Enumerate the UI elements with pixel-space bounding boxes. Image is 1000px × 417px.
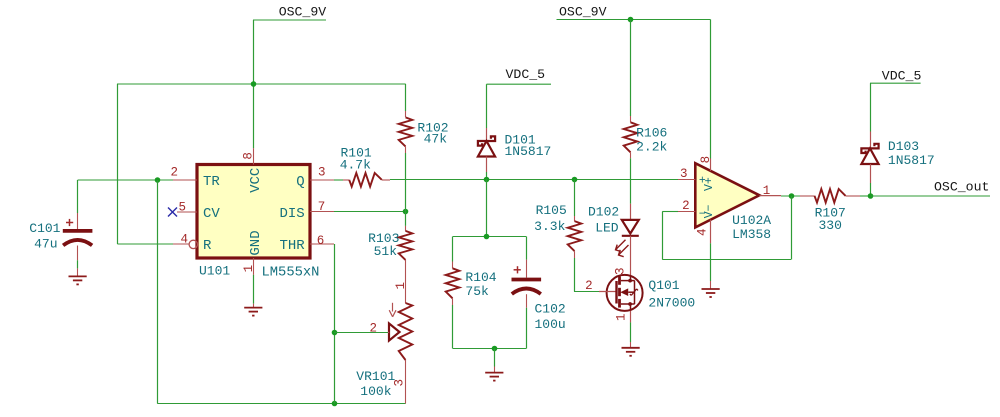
label U101 [199,264,230,279]
pin 3 VR101 [392,379,406,387]
svg-text:7: 7 [318,200,326,214]
junction OSC_9V rail [628,17,634,23]
ground RC [485,373,503,381]
svg-text:C101: C101 [29,221,60,236]
pin name THR [279,238,305,254]
label 1N5817 [505,144,552,159]
svg-text:VDC_5: VDC_5 [882,68,922,83]
svg-text:51k: 51k [374,244,398,259]
pin 7 DIS stub [310,200,334,214]
wire wiper [334,332,388,334]
pin 3 U102A stub [678,167,695,181]
svg-text:OSC_9V: OSC_9V [559,4,607,19]
junction bottom rail / VR101 pin3 [332,401,338,407]
pin 2 VR101 [370,321,378,335]
resistor R107 [800,189,870,203]
svg-text:2N7000: 2N7000 [648,296,695,311]
svg-text:2: 2 [171,166,179,180]
svg-text:100k: 100k [360,384,391,399]
svg-text:U102A: U102A [732,213,771,228]
resistor R105 [568,180,599,292]
svg-text:D103: D103 [888,139,919,154]
ground Q101 [622,348,640,356]
svg-text:8: 8 [699,156,713,164]
label 4.7k [340,157,371,172]
svg-text:1: 1 [394,282,408,290]
svg-text:100u: 100u [535,317,566,332]
svg-text:CV: CV [203,206,220,222]
pin name R [203,238,212,254]
svg-text:V+: V+ [703,177,716,191]
pin 2 TR stub [171,166,197,180]
wire RC top [453,236,527,238]
junction RC top [484,234,490,240]
label R102 [417,120,448,135]
diode D103 1N5817 [861,132,878,197]
svg-text:1N5817: 1N5817 [888,153,935,168]
junction RC ground [492,346,498,352]
svg-text:5: 5 [179,201,187,215]
led D102 [622,204,639,277]
svg-text:OSC_out: OSC_out [934,179,989,194]
label LM358 [732,227,771,242]
label R106 [636,126,667,141]
svg-text:8: 8 [241,152,255,160]
wire C101 top [77,180,79,213]
svg-text:D102: D102 [588,204,619,219]
label R104 [465,270,496,285]
svg-text:6: 6 [317,234,325,248]
svg-text:1: 1 [242,265,256,273]
wire THR vertical [334,244,336,404]
svg-text:47k: 47k [424,132,448,147]
svg-text:R104: R104 [465,270,496,285]
pin 2 Q101 [585,279,593,293]
resistor R102 [399,84,413,212]
wire Q101 source [630,311,632,347]
junction output node [789,193,795,199]
wire feedback loop [662,196,791,260]
label LED [595,220,619,235]
wire output to junction [781,195,800,197]
label 330 [819,218,842,233]
pin 4 R stub [173,233,198,249]
wire left rail down to R pin [117,84,173,244]
svg-text:3: 3 [614,267,628,275]
svg-text:DIS: DIS [279,206,304,222]
pin name DIS [279,206,304,222]
label R103 [368,231,399,246]
no-connect X on CV [168,208,177,217]
transistor Q101 2N7000 [599,275,643,311]
wire RC ground stem [494,349,496,373]
svg-text:Q: Q [296,174,304,190]
resistor R103 [399,212,413,304]
label VR101 [356,369,395,384]
pin 4 U102A [695,220,710,244]
svg-text:OSC_9V: OSC_9V [279,4,327,19]
wire C101 to TR [78,179,173,181]
wire RC bottom [453,348,527,350]
label 1N5817 [888,153,935,168]
label R107 [815,205,846,220]
label LM555xN [262,266,320,281]
ground C101 [69,276,87,284]
pin 8 U102A [699,156,713,171]
label 75k [465,284,489,299]
pin 1 U102A stub [759,184,781,198]
label Q101 [648,278,679,293]
label D102 [588,204,619,219]
svg-text:330: 330 [819,218,842,233]
svg-text:V−: V− [703,204,716,218]
pin 6 THR stub [310,234,334,248]
wire DIS to R102/R103 [334,211,406,213]
capacitor C101 [63,213,93,276]
resistor R106 [624,20,638,204]
label R105 [536,203,567,218]
svg-text:47u: 47u [34,236,57,251]
svg-text:LED: LED [595,220,619,235]
pin name Q [296,174,304,190]
power label VDC_5 (right) [870,68,921,83]
label 47u [34,236,57,251]
wire U101 GND [253,275,255,308]
svg-text:2: 2 [682,199,690,213]
pin 1 VR101 [394,282,408,290]
op-amp input marks [699,175,706,221]
svg-text:1: 1 [614,313,628,321]
pin 3 Q101 [614,267,628,275]
label 2N7000 [648,296,695,311]
label 100k [360,384,391,399]
label C101 [29,221,60,236]
pin 1 GND stub [242,258,256,275]
svg-text:3: 3 [680,167,688,181]
wire TR node down to bottom rail [157,180,159,404]
pot adjust arrow [389,303,396,317]
svg-text:R106: R106 [636,126,667,141]
wire VDC_5 to D101 [486,84,488,128]
svg-text:VCC: VCC [248,168,264,193]
svg-text:2: 2 [370,321,378,335]
svg-text:1N5817: 1N5817 [505,144,552,159]
svg-text:75k: 75k [465,284,489,299]
svg-text:4.7k: 4.7k [340,157,371,172]
wire OSC_9V vertical to rail [253,20,255,148]
svg-text:4: 4 [695,228,709,236]
svg-text:GND: GND [248,230,264,255]
ground U101 [244,308,262,316]
capacitor C102 [512,237,542,349]
junction top rail / U101 VCC [251,81,257,87]
ic U101 LM555xN body [197,165,310,259]
label D103 [888,139,919,154]
pin name CV [203,206,220,222]
wire bottom rail [157,403,405,405]
pin 5 CV stub [177,201,197,215]
svg-text:VR101: VR101 [356,369,395,384]
wire VDC_5 to D103 [870,83,872,131]
junction OSC_out node [868,193,874,199]
svg-text:LM555xN: LM555xN [262,266,320,281]
op-amp V- mark [703,204,716,218]
power label OSC_9V (left) [253,4,326,20]
label 2.2k [636,140,667,155]
label D101 [505,133,536,148]
svg-text:2.2k: 2.2k [636,140,667,155]
resistor R104 [446,237,460,349]
svg-text:R: R [203,238,212,254]
junction THR / wiper [332,330,338,336]
label U102A [732,213,771,228]
svg-text:LM358: LM358 [732,227,771,242]
pin name TR [203,174,220,190]
wire top VCC rail [117,83,406,85]
label 3.3k [534,219,565,234]
pin 8 VCC stub [241,148,255,164]
pin 2 U102A stub [678,199,695,213]
junction R105 node [572,177,578,183]
net label OSC_out [870,179,990,196]
svg-text:R105: R105 [536,203,567,218]
led D102 arrows [616,240,629,257]
svg-text:U101: U101 [199,264,230,279]
op-amp U102A body [695,163,759,227]
svg-text:3: 3 [318,166,326,180]
pin name VCC [248,168,264,193]
pin 3 Q stub [310,166,334,181]
wire pin8 OSC_9V [710,20,712,159]
potentiometer VR101 [388,303,412,404]
pin name GND [248,230,264,255]
op-amp V+ mark [703,177,716,191]
label 47k [424,132,448,147]
svg-text:2: 2 [585,279,593,293]
resistor R101 [334,173,678,187]
svg-text:4: 4 [181,233,189,247]
junction TR node [155,177,161,183]
wire D101 down to RC [486,180,488,237]
label R101 [341,145,372,160]
power label VDC_5 (mid) [487,67,552,84]
svg-text:Q101: Q101 [648,278,679,293]
label C102 [535,301,566,316]
pin 1 Q101 [614,313,628,321]
ground U102A [702,289,720,297]
wire pin4 to ground [710,243,712,288]
svg-text:VDC_5: VDC_5 [506,67,546,82]
svg-text:3.3k: 3.3k [534,219,565,234]
label 100u [535,317,566,332]
svg-text:THR: THR [279,238,305,254]
power label OSC_9V (mid) [557,4,711,19]
svg-text:TR: TR [203,174,220,190]
diode D101 1N5817 [478,128,495,180]
junction DIS node [403,209,409,215]
svg-text:1: 1 [763,184,771,198]
label 51k [374,244,398,259]
junction D101 node [484,177,490,183]
svg-text:C102: C102 [535,301,566,316]
